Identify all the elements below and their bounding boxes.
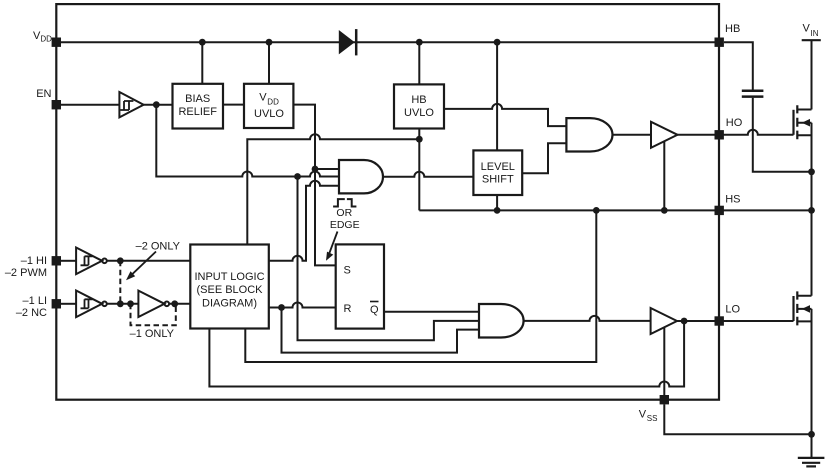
ground bbox=[798, 458, 825, 467]
label OR EDGE bbox=[330, 207, 360, 231]
svg-text:BIAS: BIAS bbox=[185, 93, 210, 105]
svg-text:HB: HB bbox=[725, 23, 740, 35]
capacitor C1 (bootstrap) bbox=[742, 91, 764, 97]
wire EN enable line (down, right to AND U2 middle input, hops at 247.3 and 315) bbox=[156, 105, 339, 177]
svg-text:SHIFT: SHIFT bbox=[482, 173, 514, 185]
wire EN buffer to BIAS RELIEF bbox=[144, 104, 174, 106]
svg-text:SS: SS bbox=[647, 414, 658, 423]
pin EN bbox=[36, 88, 61, 109]
junction HS/HO-buffer bbox=[661, 207, 668, 214]
wire EN pin to buffer bbox=[61, 104, 119, 106]
svg-text:EN: EN bbox=[36, 88, 51, 100]
op-amp n/a : AND gate U2 (3-input, HO set path) bbox=[339, 160, 383, 193]
wire LI pin to inverter U7 bbox=[61, 303, 76, 305]
pin VSS bbox=[639, 395, 669, 423]
junction VSS/ground bbox=[808, 431, 815, 438]
pin HO bbox=[715, 117, 743, 140]
junction VDD/vdd-uvlo bbox=[266, 39, 273, 46]
IC boundary box bbox=[56, 4, 719, 400]
junction HS/level-shift bbox=[494, 207, 501, 214]
buffer U9 (HO driver) bbox=[651, 122, 678, 148]
wire AND U2 output to LEVEL SHIFT (hop at 420) bbox=[383, 172, 473, 177]
wire HS rail bbox=[419, 209, 811, 211]
svg-text:–1 LI: –1 LI bbox=[23, 295, 47, 307]
svg-text:HS: HS bbox=[725, 193, 740, 205]
wire LO buffer output to LO pin and ext gate bbox=[677, 320, 794, 322]
junction HB-UVLO status node bbox=[416, 136, 423, 143]
svg-text:IN: IN bbox=[811, 29, 819, 38]
pin VDD bbox=[33, 30, 61, 47]
wire latch Qbar to AND U4 top input bbox=[384, 311, 479, 313]
svg-text:HO: HO bbox=[726, 117, 743, 129]
svg-text:UVLO: UVLO bbox=[404, 107, 434, 119]
junction ext HS/cap bbox=[808, 168, 815, 175]
wire VDD to VDD UVLO bbox=[268, 42, 270, 84]
junction EN buffer output bbox=[153, 101, 160, 108]
inverter U8 (-1 option) bbox=[138, 291, 169, 317]
junction HS/feedback bbox=[593, 207, 600, 214]
svg-text:HB: HB bbox=[411, 94, 426, 106]
wire dashed -2 option link bbox=[119, 261, 121, 304]
diode D1 (bootstrap) bbox=[339, 29, 356, 55]
block LEVEL SHIFT bbox=[473, 150, 522, 195]
junction R line / AND U4 feed bbox=[278, 304, 285, 311]
junction VDD/hb-uvlo bbox=[416, 39, 423, 46]
wire INPUT LOGIC HI out to AND U2 bottom input (node B, hops at 297.5 and 315) bbox=[269, 181, 339, 261]
junction ext HS/pin line bbox=[808, 207, 815, 214]
svg-text:(SEE BLOCK: (SEE BLOCK bbox=[196, 284, 263, 296]
wire R node to AND U4 bottom input bbox=[282, 308, 480, 353]
wire VSS pin to ground node bbox=[664, 404, 811, 434]
wire HB pin to bootstrap cap bbox=[724, 42, 753, 89]
wire dashed -1 bypass bbox=[131, 304, 176, 326]
AND gate U4 (3-input, LO path) bbox=[479, 304, 524, 338]
inverter U6 (HI schmitt input) bbox=[76, 248, 107, 275]
wire LEVEL SHIFT bottom to HS rail bbox=[496, 195, 498, 210]
svg-text:RELIEF: RELIEF bbox=[178, 106, 217, 118]
wire VDD to BIAS RELIEF bbox=[201, 42, 203, 84]
wire AND U2 top input bbox=[315, 168, 339, 170]
wire VIN to Q1 drain bbox=[811, 40, 813, 109]
svg-text:V: V bbox=[259, 91, 267, 103]
svg-text:R: R bbox=[344, 303, 352, 315]
edge pulse symbol (falling) bbox=[347, 199, 357, 206]
junction HI line / -2 dashed link bbox=[117, 257, 124, 264]
svg-text:VDD: VDD bbox=[33, 30, 52, 44]
svg-text:Q: Q bbox=[370, 304, 379, 316]
wire HO buffer to HO pin and ext gate (hop at 752.8) bbox=[678, 130, 794, 135]
pin LI/NC bbox=[16, 295, 61, 319]
svg-text:S: S bbox=[344, 265, 351, 277]
node VIN terminal bbox=[802, 23, 821, 41]
wire LO buffer return to VSS pin bbox=[663, 328, 665, 400]
pin HS bbox=[715, 193, 741, 215]
svg-text:–2 NC: –2 NC bbox=[16, 307, 47, 319]
wire node A to AND U4 middle input bbox=[298, 177, 480, 341]
junction VDD/level-shift bbox=[494, 39, 501, 46]
junction LI line / -1 bypass start bbox=[127, 300, 134, 307]
pin HI/PWM bbox=[5, 255, 61, 279]
block BIAS RELIEF bbox=[173, 84, 224, 129]
annotation arrow OR-EDGE to S input bbox=[326, 232, 338, 261]
block INPUT LOGIC bbox=[190, 245, 268, 329]
svg-text:DD: DD bbox=[267, 98, 279, 107]
wire HB UVLO output to AND U3 top input (hop at 497) bbox=[444, 104, 566, 126]
junction EN line / node A vertical bbox=[294, 173, 301, 180]
svg-text:UVLO: UVLO bbox=[254, 108, 284, 120]
svg-text:V: V bbox=[639, 409, 647, 421]
transistor Q2 (low-side NFET) bbox=[794, 291, 812, 325]
svg-text:LO: LO bbox=[725, 303, 740, 315]
svg-text:DIAGRAM): DIAGRAM) bbox=[202, 297, 257, 309]
buffer EN (schmitt, non-inverting) bbox=[119, 92, 143, 117]
wire AND U3 output to HO buffer bbox=[613, 134, 652, 136]
wire Q1 source / half-bridge node bbox=[811, 123, 813, 296]
junction VDD/bias-relief bbox=[199, 39, 206, 46]
wire U8 output to INPUT LOGIC bbox=[169, 303, 190, 305]
wire VDD UVLO output down to S latch (node C) bbox=[293, 105, 336, 266]
svg-text:V: V bbox=[803, 23, 811, 35]
svg-text:–1 ONLY: –1 ONLY bbox=[130, 328, 175, 340]
svg-text:LEVEL: LEVEL bbox=[481, 161, 515, 173]
latch U5 (SR) bbox=[336, 244, 384, 328]
wire U6 output to INPUT LOGIC bbox=[107, 260, 191, 262]
transistor Q1 (high-side NFET) bbox=[794, 105, 812, 139]
wire AND U4 output to LO buffer (hop at 594.5) bbox=[524, 316, 651, 321]
svg-text:–1 HI: –1 HI bbox=[21, 255, 47, 267]
wire VDD rail bbox=[61, 41, 715, 43]
junction LI line / dashed link bbox=[117, 300, 124, 307]
svg-text:OR: OR bbox=[336, 207, 352, 219]
wire HO buffer return to HS bbox=[663, 141, 665, 210]
svg-text:–2 PWM: –2 PWM bbox=[5, 267, 47, 279]
wire Q2 source to ground bbox=[811, 309, 813, 458]
wire U7 output to inverter U8 bbox=[107, 303, 139, 305]
wire INPUT LOGIC LI out to latch R (hop at 297.5) bbox=[269, 303, 336, 308]
wire LO feedback to INPUT LOGIC (hop at 664.3) bbox=[209, 321, 684, 387]
wire VDD to HB UVLO bbox=[418, 42, 420, 84]
AND gate U3 (2-input, HO path) bbox=[566, 118, 612, 151]
inverter U7 (LI schmitt input) bbox=[76, 291, 107, 318]
buffer U10 (LO driver) bbox=[651, 308, 677, 334]
pin LO bbox=[715, 303, 741, 325]
wire LEVEL SHIFT output to AND U3 bottom input bbox=[522, 143, 566, 173]
svg-text:–2 ONLY: –2 ONLY bbox=[136, 240, 181, 252]
svg-text:EDGE: EDGE bbox=[330, 219, 360, 231]
svg-text:INPUT LOGIC: INPUT LOGIC bbox=[194, 271, 264, 283]
edge pulse symbol (rising) bbox=[333, 199, 345, 206]
wire HB status to INPUT LOGIC top (hop at 315) bbox=[247, 134, 419, 244]
junction LO output bbox=[681, 318, 688, 325]
wire cap bottom to HS node bbox=[753, 98, 812, 172]
block VDD UVLO bbox=[244, 84, 293, 128]
wire HI pin to inverter U6 bbox=[61, 260, 76, 262]
junction U8 output / bypass end bbox=[171, 300, 178, 307]
wire HB UVLO bottom to HS rail bbox=[418, 129, 420, 211]
block HB UVLO bbox=[394, 84, 444, 128]
junction node C / AND U2 top input bbox=[312, 166, 319, 173]
pin HB bbox=[715, 23, 741, 47]
annotation arrow -2 ONLY to dashed link bbox=[126, 252, 156, 281]
wire BIAS RELIEF to VDD UVLO bbox=[223, 104, 245, 106]
wire HS feedback to INPUT LOGIC bbox=[245, 210, 596, 362]
wire VDD to LEVEL SHIFT top bbox=[496, 42, 498, 150]
